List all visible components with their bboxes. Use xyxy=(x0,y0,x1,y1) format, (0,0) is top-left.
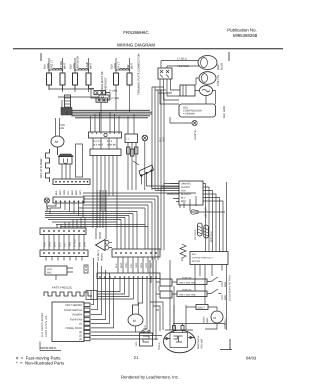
svg-text:HTR WAT: HTR WAT xyxy=(201,338,204,349)
svg-text:WIRING DIAGRAM: WIRING DIAGRAM xyxy=(117,43,155,48)
svg-text:AUX FRZR THERMO: AUX FRZR THERMO xyxy=(41,313,44,337)
svg-text:RED: RED xyxy=(135,263,138,268)
svg-text:RED: RED xyxy=(163,137,166,142)
svg-text:YEL: YEL xyxy=(130,263,133,268)
svg-text:GRY: GRY xyxy=(145,262,148,268)
svg-text:FRS26BH6C: FRS26BH6C xyxy=(123,30,148,35)
svg-text:CONT CUT IN LBS: CONT CUT IN LBS xyxy=(45,315,48,337)
svg-text:ORN: ORN xyxy=(63,190,66,195)
svg-text:BLK WHT: BLK WHT xyxy=(93,144,104,147)
svg-text:FRESH FOOD: FRESH FOOD xyxy=(66,327,83,330)
svg-text:TIMER: TIMER xyxy=(158,342,161,350)
svg-text:GREY 55W HSB: GREY 55W HSB xyxy=(179,281,196,284)
svg-text:WHT: WHT xyxy=(59,189,62,195)
svg-text:* = Non-Illustrated Parts: * = Non-Illustrated Parts xyxy=(16,361,64,366)
svg-text:PURPLE: PURPLE xyxy=(181,186,191,189)
svg-text:PNK: PNK xyxy=(150,263,153,268)
svg-text:M: M xyxy=(133,319,136,323)
svg-text:CSE LTS: CSE LTS xyxy=(217,75,220,86)
svg-text:BLK: BLK xyxy=(55,190,58,195)
svg-text:STYROFOAM AUX T: STYROFOAM AUX T xyxy=(192,257,213,260)
svg-text:YEL: YEL xyxy=(67,190,70,195)
svg-text:DEF THERMO: DEF THERMO xyxy=(66,304,83,307)
svg-text:5995369268: 5995369268 xyxy=(233,33,258,38)
svg-text:FRZ: FRZ xyxy=(47,272,52,275)
svg-text:BLK/WHT: BLK/WHT xyxy=(181,193,192,196)
svg-text:21: 21 xyxy=(134,355,139,360)
svg-text:GRY: GRY xyxy=(79,190,82,195)
svg-text:(1): (1) xyxy=(79,323,82,326)
svg-text:LT GRN: LT GRN xyxy=(109,90,118,93)
svg-text:EVAP FAN: EVAP FAN xyxy=(70,319,82,322)
svg-text:SOL: SOL xyxy=(135,341,138,346)
svg-text:GRN: GRN xyxy=(206,318,209,323)
svg-text:S/CS3 SEM N PE TPCV: S/CS3 SEM N PE TPCV xyxy=(229,275,232,301)
svg-text:TAN: TAN xyxy=(181,190,186,193)
svg-text:DOOR SWITCH: DOOR SWITCH xyxy=(64,309,82,312)
svg-text:GRN/YEL: GRN/YEL xyxy=(181,183,192,186)
svg-text:RED: RED xyxy=(181,200,186,203)
svg-text:04/03: 04/03 xyxy=(246,356,257,361)
svg-text:SW/LT: SW/LT xyxy=(198,307,206,310)
svg-text:BULB: BULB xyxy=(221,63,224,70)
svg-text:B/TPRS: B/TPRS xyxy=(192,260,200,263)
svg-text:Publication No.: Publication No. xyxy=(227,28,257,33)
svg-text:Rendered by LeadVenture, Inc.: Rendered by LeadVenture, Inc. xyxy=(121,375,179,380)
svg-text:RED: RED xyxy=(71,190,74,195)
svg-text:WHT: WHT xyxy=(64,63,67,69)
svg-text:BLK GRN: BLK GRN xyxy=(223,106,226,118)
svg-text:LT GRN: LT GRN xyxy=(111,97,120,100)
svg-text:POWER: POWER xyxy=(73,314,83,317)
svg-text:BLK: BLK xyxy=(115,263,118,268)
svg-text:FRZ LT: FRZ LT xyxy=(51,60,54,69)
svg-text:WHT: WHT xyxy=(131,63,134,69)
svg-text:LDP BKTS: LDP BKTS xyxy=(97,249,100,261)
svg-text:9 7 5: 9 7 5 xyxy=(107,140,113,143)
svg-text:GREY 55W HSB: GREY 55W HSB xyxy=(179,293,196,296)
svg-text:5303918241: 5303918241 xyxy=(40,346,57,350)
svg-text:• 5304464: • 5304464 xyxy=(183,113,195,116)
svg-text:WHT: WHT xyxy=(90,63,93,69)
svg-text:ORN RD: ORN RD xyxy=(107,144,116,147)
svg-text:ORN: ORN xyxy=(125,262,128,268)
svg-text:BRN: BRN xyxy=(75,190,78,195)
svg-text:WHT: WHT xyxy=(120,262,123,268)
svg-text:FUSE NC: FUSE NC xyxy=(182,289,192,292)
svg-text:DEF HTR 450W: DEF HTR 450W xyxy=(40,158,43,178)
svg-text:M: M xyxy=(55,140,58,144)
svg-text:BLU: BLU xyxy=(181,197,186,200)
svg-text:DEF TMR: DEF TMR xyxy=(205,207,208,218)
svg-text:WTR: WTR xyxy=(144,325,147,330)
svg-text:FAST FREEZE: FAST FREEZE xyxy=(52,286,72,290)
svg-text:FUSE NC: FUSE NC xyxy=(182,277,192,280)
svg-text:TERMINAL PLATE CONNECTION: TERMINAL PLATE CONNECTION xyxy=(138,54,141,95)
svg-text:(4): (4) xyxy=(79,338,82,341)
svg-text:WD/BU: WD/BU xyxy=(101,253,104,261)
svg-text:BRN: BRN xyxy=(140,263,143,268)
svg-text:SOLN: SOLN xyxy=(203,316,206,323)
svg-text:GRN/YEL: GRN/YEL xyxy=(194,128,197,140)
svg-text:FF LT: FF LT xyxy=(118,62,121,69)
svg-text:YEL/GRN: YEL/GRN xyxy=(194,229,197,240)
svg-text:BLK: BLK xyxy=(192,253,197,256)
svg-text:INTERIOR: INTERIOR xyxy=(77,56,80,69)
svg-text:WHT/BLK: WHT/BLK xyxy=(210,231,213,242)
svg-text:LT. BLU: LT. BLU xyxy=(177,57,187,61)
